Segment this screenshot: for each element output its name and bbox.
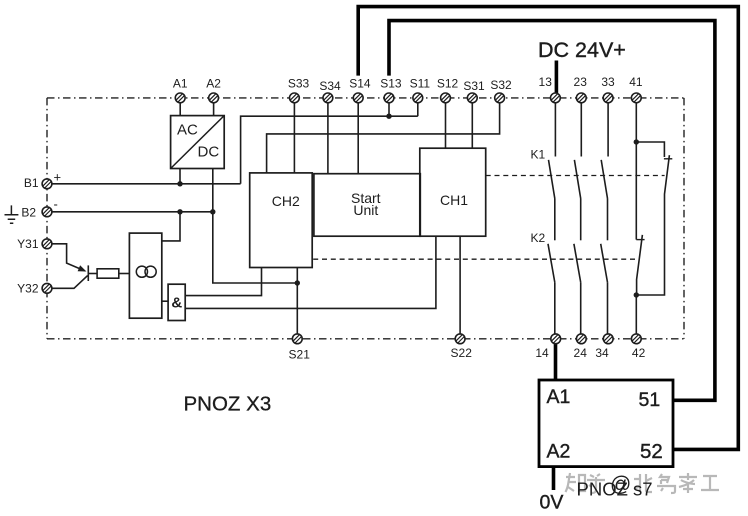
terminal S22 xyxy=(455,334,465,344)
thick supply wire S14 to 52 (outer loop) xyxy=(358,7,738,450)
terminal 34 xyxy=(603,334,613,344)
svg-text:A2: A2 xyxy=(547,441,571,463)
block CH1 xyxy=(420,148,486,236)
svg-text:23: 23 xyxy=(574,75,588,89)
node junction B2/transformer drop xyxy=(177,209,182,214)
terminal S33 xyxy=(290,93,300,103)
svg-text:S33: S33 xyxy=(288,76,310,90)
wire Y31 branch xyxy=(52,244,85,271)
terminal 33 xyxy=(603,93,613,103)
terminal 13 xyxy=(551,93,561,103)
svg-text:&: & xyxy=(171,295,182,312)
AND gate U2 xyxy=(168,284,185,320)
wire CH2 bottom pin to AND gate output xyxy=(185,268,261,296)
wire B1 line xyxy=(52,183,241,185)
terminal B2 xyxy=(42,207,52,217)
glyph li xyxy=(679,473,697,493)
svg-text:14: 14 xyxy=(535,346,549,360)
terminal 41 xyxy=(631,93,641,103)
node junction B2/A2 pin xyxy=(210,209,215,214)
watermark zhihu @beidao ligong xyxy=(566,473,720,496)
wire S32 stub and rail to CH2 xyxy=(267,103,500,173)
terminal S32 xyxy=(495,93,505,103)
svg-text:PNOZ X3: PNOZ X3 xyxy=(184,393,272,416)
relay enclosure dash-dot border bottom xyxy=(47,338,684,340)
relay enclosure dash-dot border left xyxy=(46,98,48,339)
wire transistor base to resistor xyxy=(88,273,97,275)
terminal S34 xyxy=(323,93,333,103)
node junction B1/A1 pin xyxy=(177,181,182,186)
wire 41 main line down to K2 NC contact xyxy=(635,142,637,240)
K2 linkage dashed line xyxy=(313,258,637,260)
svg-text:S21: S21 xyxy=(289,347,311,361)
svg-text:0V: 0V xyxy=(540,491,564,513)
terminal 24 xyxy=(576,334,586,344)
svg-text:B1: B1 xyxy=(24,176,39,190)
terminal 42 xyxy=(631,334,641,344)
svg-text:DC 24V+: DC 24V+ xyxy=(538,38,626,62)
svg-text:51: 51 xyxy=(639,389,661,411)
terminal Y32 xyxy=(42,283,52,293)
wire B2 drop to transformer xyxy=(162,212,180,241)
wire B1 riser to S13/S11 rail xyxy=(241,116,418,184)
transformer T1 box xyxy=(129,233,161,318)
svg-text:S12: S12 xyxy=(437,77,459,91)
wire S34 stub into Start Unit xyxy=(327,103,329,174)
K2 NC contact seat tick xyxy=(636,239,644,241)
glyph dao xyxy=(657,474,675,493)
contact column 33-34 (K1,K2 NO contacts) xyxy=(607,103,609,157)
contact column 13-14 (K1,K2 NO contacts) xyxy=(554,103,556,157)
wire S12 stub into CH1 xyxy=(445,103,447,148)
transistor Q1 bar xyxy=(87,265,89,281)
wire B2 line xyxy=(52,211,213,213)
svg-text:PNOZ s7: PNOZ s7 xyxy=(577,479,653,500)
block Start Unit xyxy=(314,174,420,237)
terminal A1 xyxy=(175,93,185,103)
svg-text:DC: DC xyxy=(198,143,220,160)
wire AND gate to CH1 bottom pin xyxy=(185,236,436,308)
terminal Y31 xyxy=(42,239,52,249)
svg-text:S11: S11 xyxy=(410,77,431,91)
svg-text:K1: K1 xyxy=(531,147,546,161)
terminal S21 xyxy=(292,334,302,344)
node junction 41 branch xyxy=(634,139,639,144)
svg-text:B2: B2 xyxy=(21,205,36,219)
contact column 23-24 (K1,K2 NO contacts) xyxy=(580,103,582,157)
wire 41 stub to node xyxy=(635,103,637,142)
svg-text:S14: S14 xyxy=(349,76,371,90)
terminal B1 xyxy=(42,179,52,189)
svg-text:42: 42 xyxy=(632,346,646,360)
svg-text:41: 41 xyxy=(629,75,643,89)
thick supply wire S13 to 51 (inner loop) xyxy=(389,21,715,401)
wire A1 pin down to B1 line xyxy=(179,169,181,184)
svg-text:24: 24 xyxy=(574,346,588,360)
svg-text:K2: K2 xyxy=(531,231,546,245)
glyph hu xyxy=(587,474,605,493)
svg-text:A1: A1 xyxy=(173,76,188,90)
node junction 42 branch xyxy=(634,292,639,297)
terminal S12 xyxy=(441,93,451,103)
glyph gong xyxy=(701,476,719,490)
svg-text:CH1: CH1 xyxy=(440,192,468,208)
svg-text:52: 52 xyxy=(640,440,663,463)
glyph bei xyxy=(634,474,652,492)
wire A2 stub xyxy=(213,103,215,116)
relay enclosure dash-dot border top xyxy=(47,97,684,99)
svg-text:A2: A2 xyxy=(206,76,221,90)
block CH2 xyxy=(250,173,313,268)
wire right NC branch from node xyxy=(636,142,664,157)
K1 NC contact seat tick xyxy=(664,158,672,160)
wire S31 stub into CH1 xyxy=(471,103,473,148)
wire S14 stub into Start Unit xyxy=(357,103,359,174)
wire transformer to AND gate stub xyxy=(162,300,168,302)
PNOZ s7 contact expander box xyxy=(539,380,673,467)
svg-text:13: 13 xyxy=(539,75,553,89)
wire Y32 branch xyxy=(52,276,88,289)
wire resistor to transformer xyxy=(119,273,130,275)
thick wire DC 24V+ into terminal 13 xyxy=(555,61,559,94)
svg-text:-: - xyxy=(54,197,58,212)
transformer T1 windings xyxy=(136,266,147,277)
transistor Q1 arrowhead xyxy=(78,265,87,271)
svg-text:S31: S31 xyxy=(463,79,485,93)
svg-text:AC: AC xyxy=(177,122,198,139)
terminal 14 xyxy=(551,334,561,344)
thick wire A2 of PNOZ s7 to 0V xyxy=(552,467,556,490)
K2 NC contact blade xyxy=(637,235,643,295)
glyph zhi xyxy=(566,473,586,492)
node junction S21 line xyxy=(295,280,300,285)
AC/DC converter U1 xyxy=(171,116,225,169)
svg-text:Unit: Unit xyxy=(353,202,378,218)
svg-text:S13: S13 xyxy=(380,77,402,91)
svg-text:S22: S22 xyxy=(451,346,473,360)
node junction S13 rail xyxy=(386,114,391,119)
svg-text:S32: S32 xyxy=(490,78,512,92)
wire CH2/S21 pin down to terminal S21 xyxy=(296,268,298,334)
terminals xyxy=(42,93,641,344)
terminal S31 xyxy=(467,93,477,103)
ground symbol at B2 xyxy=(5,205,19,223)
svg-text:S34: S34 xyxy=(319,79,341,93)
wire A1 stub xyxy=(179,103,181,116)
thick wire terminal 14 to A1 of PNOZ s7 xyxy=(554,344,558,380)
relay enclosure dash-dot border right xyxy=(683,98,685,339)
wire A2 pin down through B1 line to B2 line and to S21 node xyxy=(213,169,297,284)
wire S33 stub into CH2 xyxy=(293,103,295,173)
wire CH1 pin down to terminal S22 xyxy=(459,236,461,334)
svg-text:CH2: CH2 xyxy=(272,193,300,209)
K1 NC contact blade xyxy=(636,155,669,295)
K1 linkage dashed line xyxy=(486,175,665,177)
terminal S14 xyxy=(353,93,363,103)
svg-text:+: + xyxy=(54,170,62,185)
wire S11 stub xyxy=(417,103,419,116)
terminal A2 xyxy=(209,93,219,103)
svg-text:34: 34 xyxy=(595,346,609,360)
wire S13 stub xyxy=(388,103,390,116)
terminal S13 xyxy=(384,93,394,103)
terminal S11 xyxy=(413,93,423,103)
wire down to terminal 42 xyxy=(635,295,637,334)
svg-text:Y31: Y31 xyxy=(17,237,39,251)
svg-text:33: 33 xyxy=(601,75,615,89)
resistor R1 xyxy=(97,269,119,278)
terminal 23 xyxy=(576,93,586,103)
svg-text:A1: A1 xyxy=(547,386,571,408)
svg-text:Y32: Y32 xyxy=(17,282,39,296)
